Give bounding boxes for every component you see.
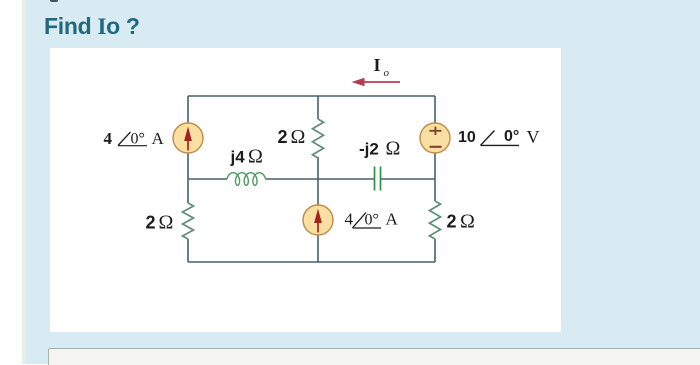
wire middle horizontal bbox=[188, 178, 435, 180]
voltage source plus bbox=[429, 127, 441, 135]
svg-text:2: 2 bbox=[278, 127, 288, 147]
voltage source V1 circle bbox=[420, 123, 450, 153]
capacitor -j2 bbox=[375, 167, 381, 191]
svg-text:Ω: Ω bbox=[159, 212, 174, 234]
current source I2 circle bbox=[303, 205, 333, 235]
current source I1 circle bbox=[173, 123, 203, 153]
inductor j4 bbox=[227, 173, 266, 186]
svg-text:0°: 0° bbox=[504, 128, 519, 145]
resistor 2ohm middle top bbox=[313, 119, 324, 158]
current source I2 arrow bbox=[317, 221, 319, 233]
Io arrow bbox=[363, 81, 400, 83]
svg-text:A: A bbox=[152, 129, 165, 148]
wire bottom bbox=[188, 261, 435, 263]
svg-text:I: I bbox=[374, 55, 381, 75]
svg-text:Ω: Ω bbox=[248, 146, 263, 168]
svg-text:-j2: -j2 bbox=[359, 140, 379, 159]
svg-text:Ω: Ω bbox=[386, 138, 401, 160]
svg-text:Ω: Ω bbox=[291, 126, 306, 148]
resistor 2ohm right bbox=[430, 201, 441, 239]
svg-text:A: A bbox=[386, 210, 399, 229]
svg-text:4: 4 bbox=[104, 129, 113, 148]
svg-text:0°: 0° bbox=[131, 131, 145, 148]
resistor 2ohm left bbox=[183, 203, 194, 239]
current source I1 arrow bbox=[187, 139, 189, 151]
wire middle vertical bbox=[317, 96, 319, 262]
voltage source minus bbox=[430, 146, 442, 148]
svg-text:V: V bbox=[527, 127, 540, 147]
wire top bbox=[188, 95, 435, 97]
svg-text:o: o bbox=[384, 67, 390, 79]
svg-text:2: 2 bbox=[447, 212, 457, 232]
wire left bbox=[187, 96, 189, 262]
svg-text:2: 2 bbox=[146, 213, 156, 233]
svg-text:4: 4 bbox=[345, 210, 354, 229]
svg-text:j4: j4 bbox=[230, 148, 246, 167]
svg-text:10: 10 bbox=[458, 129, 476, 146]
wire right bbox=[434, 96, 436, 262]
svg-text:Ω: Ω bbox=[460, 211, 475, 233]
svg-text:0°: 0° bbox=[365, 211, 379, 228]
